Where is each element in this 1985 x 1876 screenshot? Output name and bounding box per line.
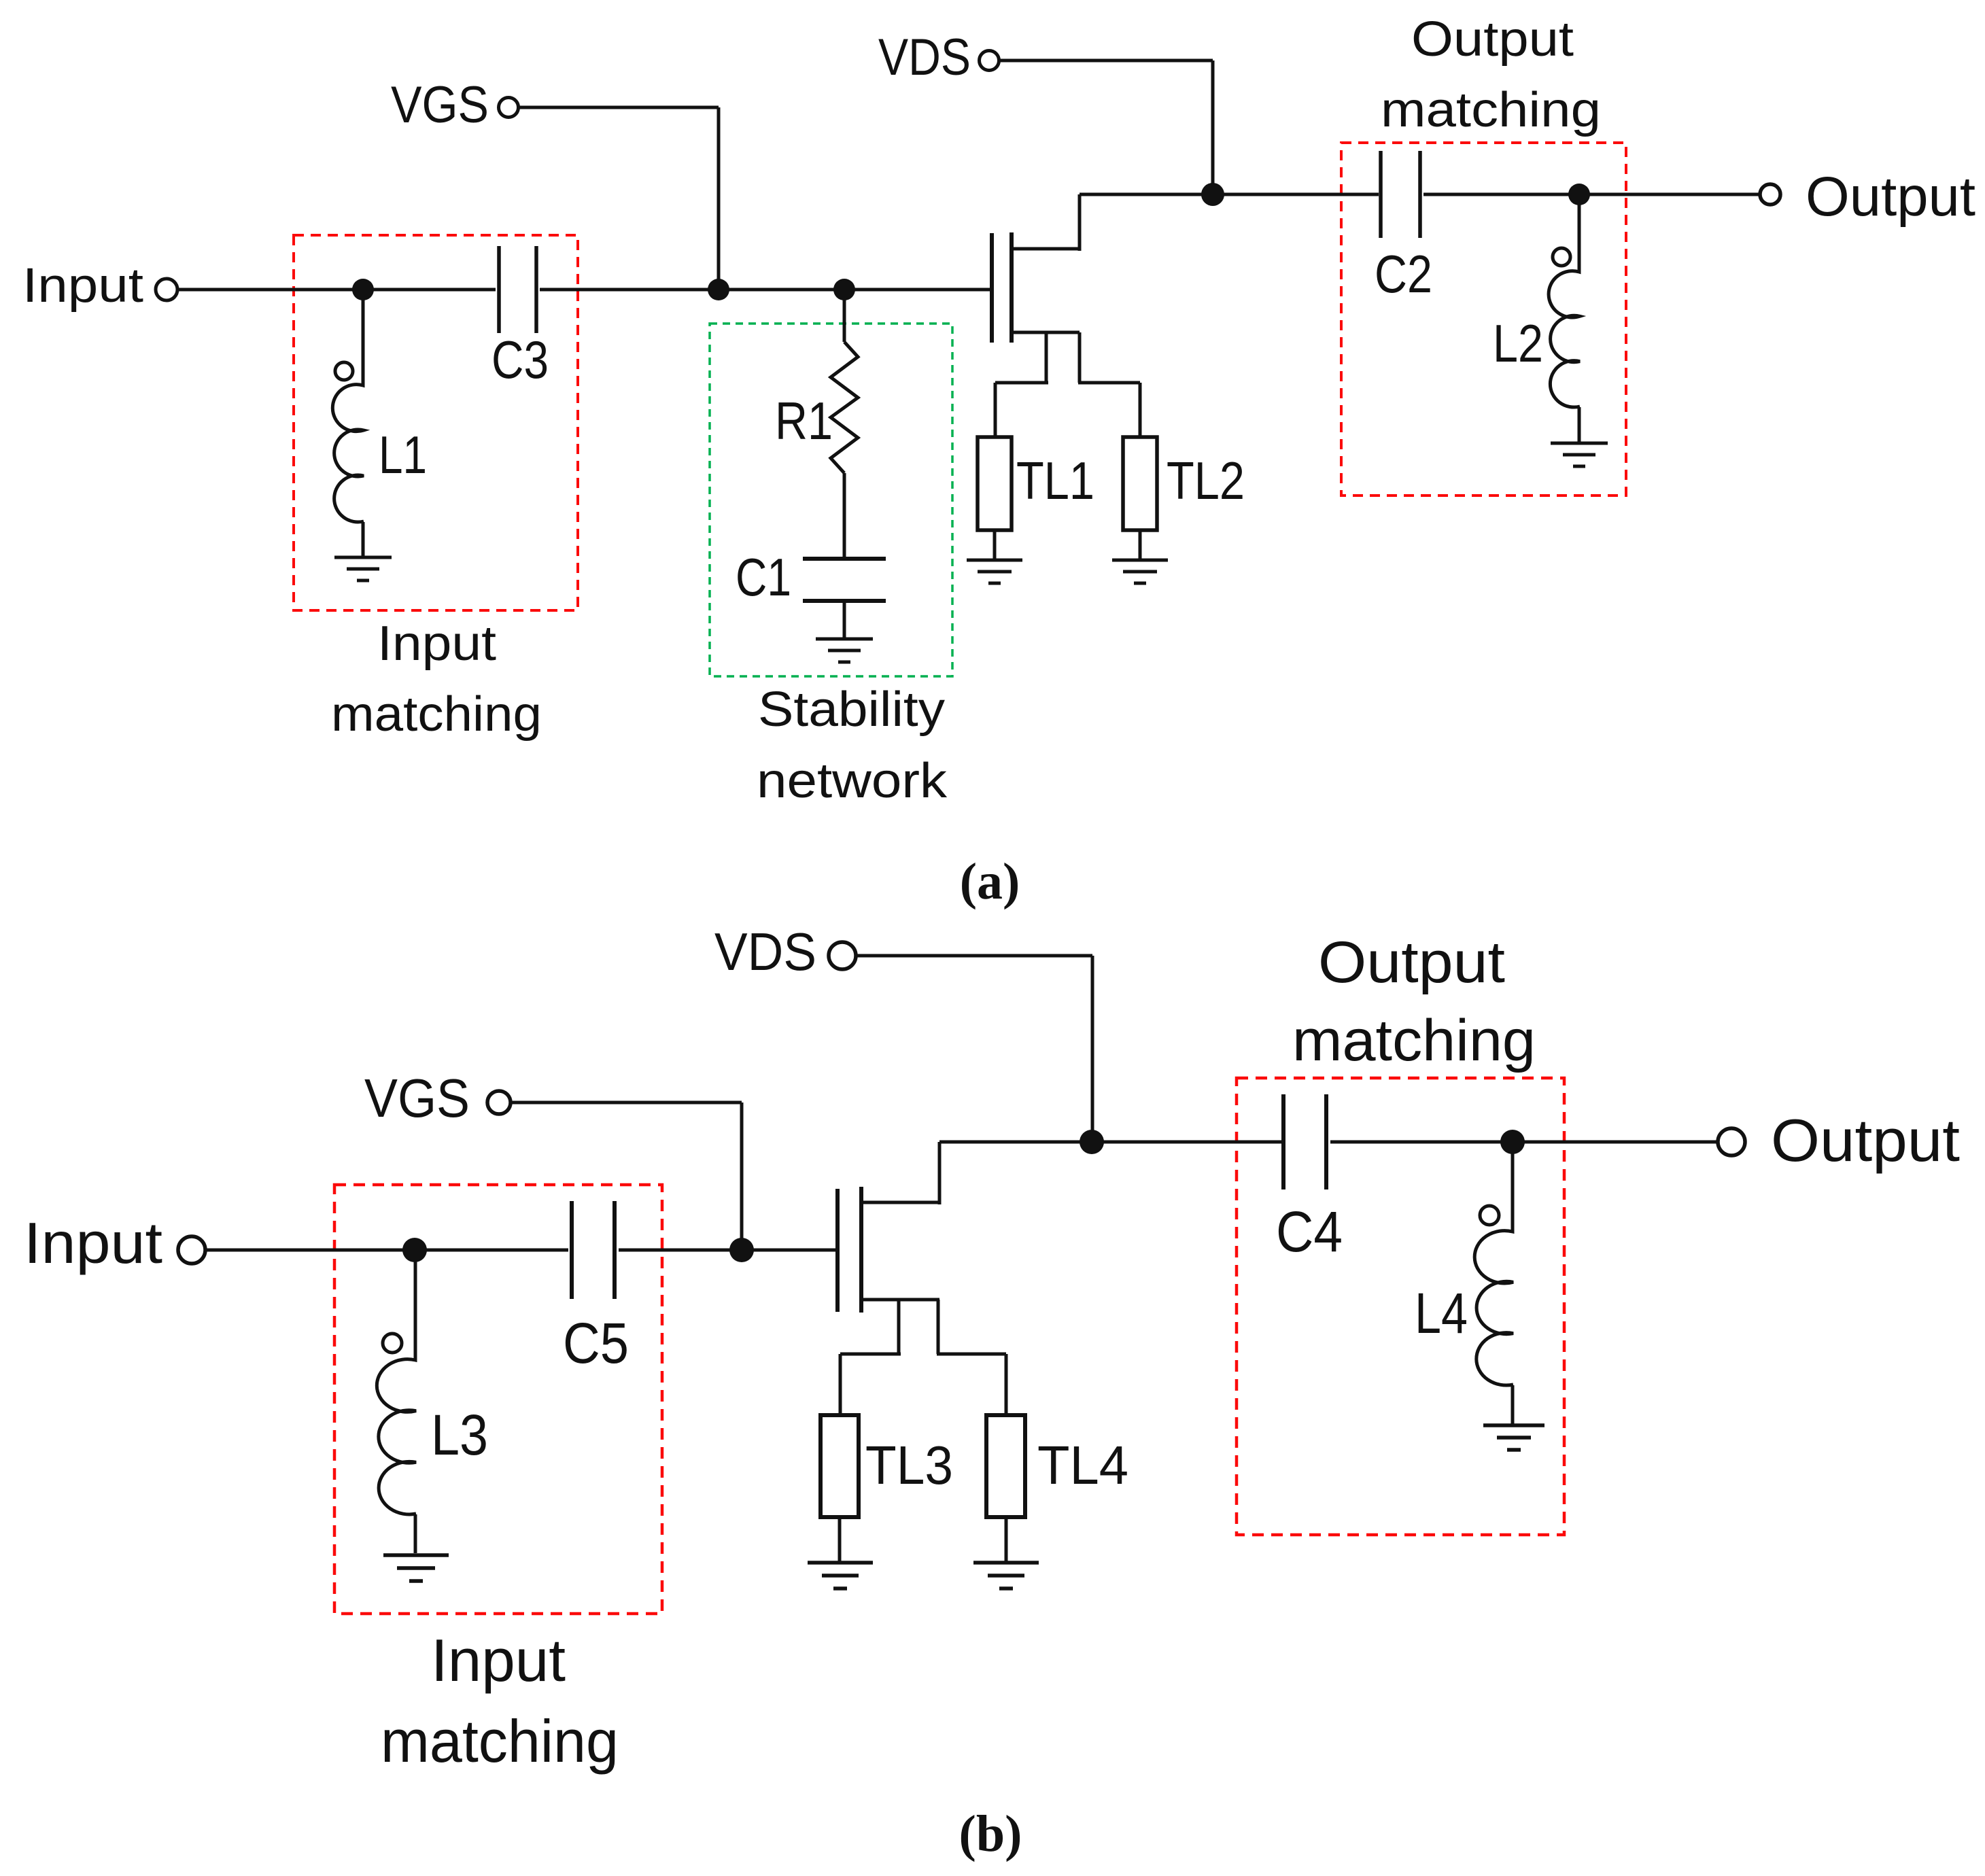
svg-text:L4: L4 [1415,1281,1468,1345]
drain junction node (a) [1201,183,1224,206]
ground under TL4 [973,1563,1039,1588]
svg-text:network: network [757,754,948,808]
ground under L3 [383,1555,449,1581]
svg-text:TL1: TL1 [1016,451,1094,510]
TL3 ground lead [838,1517,842,1561]
wire node B1 to C5 [415,1249,568,1252]
output matching box (a) [1341,143,1626,496]
source left horizontal (a) [995,381,1048,385]
VDS terminal circle (a) [980,51,999,71]
ground under C1 [816,639,873,662]
capacitor C3 [499,246,536,333]
gate wire to transistor (a) [844,288,992,292]
transistor M1 gate bar [990,233,994,343]
R1 junction node [833,279,855,300]
svg-text:(a): (a) [960,853,1020,910]
ground under L1 [334,557,392,580]
input terminal circle (a) [156,279,177,300]
svg-text:VGS: VGS [391,76,489,134]
source right drop (a) [1078,332,1082,383]
transmission line TL3 [821,1415,859,1517]
source right horizontal (b) [937,1353,1006,1356]
VDS wire horizontal (a) [999,59,1213,63]
input terminal circle (b) [178,1236,205,1264]
svg-text:Output: Output [1771,1107,1960,1174]
VGS junction node (a) [708,279,729,300]
svg-text:TL2: TL2 [1167,451,1245,510]
VDS terminal circle (b) [829,942,856,969]
svg-text:R1: R1 [775,391,833,451]
output terminal circle (a) [1760,184,1780,205]
capacitor C4 [1283,1094,1326,1189]
inductor L1 [332,290,364,557]
VGS wire vertical (b) [740,1102,744,1250]
VGS terminal circle (a) [499,98,519,118]
L4 junction node [1500,1130,1525,1154]
VGS wire vertical (a) [717,107,721,290]
source right drop (b) [937,1300,940,1354]
node B1 junction [402,1238,427,1262]
svg-text:L1: L1 [379,425,427,485]
svg-text:L3: L3 [431,1403,488,1467]
wire C4 to L4 node [1330,1141,1513,1144]
VGS junction node (b) [729,1238,754,1262]
ground under TL2 [1112,560,1168,583]
wire to TL2 [1139,383,1142,438]
TL1 ground lead [993,530,997,560]
wire to TL1 [994,383,997,438]
drain stub (b) [861,1201,939,1204]
svg-text:(b): (b) [959,1805,1022,1862]
source right horizontal (a) [1078,381,1140,385]
source left horizontal (b) [840,1353,901,1356]
svg-text:matching: matching [1381,83,1601,137]
svg-text:matching: matching [381,1707,619,1775]
VDS wire vertical (b) [1091,956,1094,1142]
transmission line TL4 [986,1415,1025,1517]
L2 junction node [1568,184,1590,205]
input matching box (a) [294,235,578,610]
source left drop (b) [897,1300,901,1354]
wire VGS node to R1 node [719,288,844,292]
wire C1 to ground [843,603,846,638]
drain horizontal wire (b) [939,1141,1092,1144]
wire node A1 to C3 [363,288,496,292]
wire C2 to L2 node [1423,193,1579,196]
VGS wire horizontal (b) [511,1101,742,1105]
wire C3 to VGS node [540,288,719,292]
wire node to output (b) [1513,1141,1717,1144]
VGS wire horizontal (a) [519,106,719,109]
svg-text:Stability: Stability [758,682,945,737]
svg-text:C5: C5 [563,1311,629,1375]
ground under L2 [1551,443,1608,466]
svg-text:Output: Output [1806,166,1975,228]
source stub (a) [1012,331,1080,334]
wire C5 to VGS node (b) [619,1249,742,1252]
output terminal circle (b) [1718,1128,1745,1156]
wire drain node to C2 [1213,193,1379,196]
wire node to R1 [843,290,846,342]
resistor R1 [831,342,858,473]
svg-text:TL3: TL3 [865,1435,953,1495]
ground under TL3 [808,1563,873,1588]
VDS wire horizontal (b) [857,954,1092,958]
wire to TL3 [839,1354,842,1417]
svg-text:Input: Input [24,1211,162,1276]
capacitor C2 [1381,151,1420,238]
drain riser (a) [1078,194,1082,251]
capacitor C1 [803,559,886,601]
svg-text:Output: Output [1318,930,1505,995]
ground under L4 [1483,1425,1544,1450]
svg-text:Input: Input [22,259,143,313]
transistor M2 gate bar [835,1189,840,1312]
wire input to node B1 [207,1249,415,1252]
transmission line TL2 [1123,437,1157,530]
inductor L3 [377,1250,416,1553]
drain stub (a) [1012,247,1080,251]
svg-text:matching: matching [1292,1008,1536,1073]
TL2 ground lead [1139,530,1142,560]
TL4 ground lead [1005,1517,1008,1561]
capacitor C5 [572,1201,615,1299]
node A1 junction [352,279,374,300]
svg-text:matching: matching [331,687,542,742]
svg-text:C2: C2 [1375,244,1432,304]
wire input to node A1 [177,288,363,292]
wire drain node to C4 [1092,1141,1281,1144]
transistor M2 channel bar [859,1187,863,1313]
source left drop (a) [1045,332,1048,383]
output matching box (b) [1237,1078,1564,1535]
transistor M1 channel bar [1009,232,1014,343]
svg-text:L2: L2 [1493,313,1543,373]
drain horizontal wire (a) [1080,193,1213,196]
svg-text:VGS: VGS [364,1068,470,1128]
drain riser (b) [938,1142,942,1204]
svg-text:Input: Input [377,616,496,671]
svg-text:VDS: VDS [714,922,816,982]
gate wire to transistor (b) [742,1249,838,1252]
svg-text:TL4: TL4 [1037,1435,1128,1495]
svg-text:C1: C1 [736,547,791,607]
stability network box [710,324,952,676]
inductor L2 [1549,194,1580,443]
svg-text:Output: Output [1411,12,1574,67]
VDS wire vertical (a) [1211,60,1215,194]
wire to TL4 [1005,1354,1008,1417]
ground under TL1 [967,560,1022,583]
input matching box (b) [334,1185,662,1614]
svg-text:VDS: VDS [878,29,971,86]
wire R1 to C1 [843,473,846,557]
inductor L4 [1474,1142,1513,1424]
svg-text:C4: C4 [1276,1200,1343,1264]
source stub (b) [861,1298,939,1302]
transmission line TL1 [978,437,1012,530]
svg-text:C3: C3 [491,330,549,389]
wire node to output (a) [1579,193,1759,196]
drain junction node (b) [1080,1130,1104,1154]
VGS terminal circle (b) [487,1091,511,1114]
svg-text:Input: Input [431,1627,566,1694]
